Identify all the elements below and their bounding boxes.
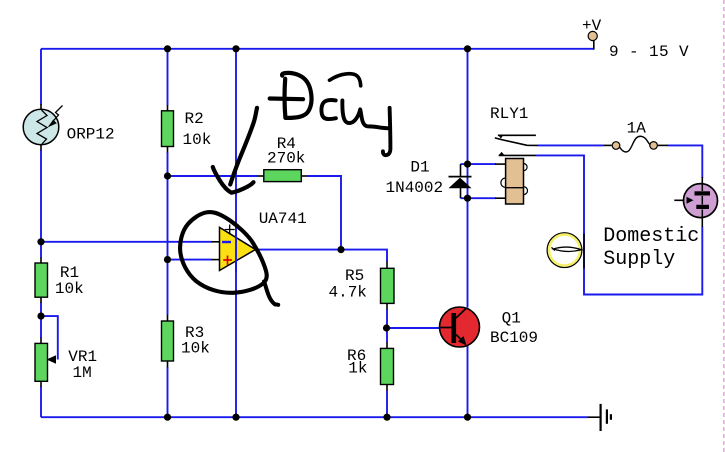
svg-text:ORP12: ORP12: [67, 125, 115, 143]
svg-text:1k: 1k: [348, 360, 367, 378]
svg-text:270k: 270k: [267, 149, 305, 167]
svg-text:Q1: Q1: [502, 310, 521, 328]
svg-text:10k: 10k: [181, 340, 210, 358]
svg-text:R5: R5: [345, 267, 364, 285]
svg-text:R2: R2: [185, 110, 204, 128]
svg-text:D1: D1: [410, 159, 429, 177]
svg-text:1A: 1A: [627, 120, 647, 138]
svg-text:RLY1: RLY1: [490, 105, 528, 123]
svg-text:UA741: UA741: [259, 210, 307, 228]
svg-text:Supply: Supply: [603, 248, 675, 271]
svg-text:4.7k: 4.7k: [329, 284, 367, 302]
svg-text:1N4002: 1N4002: [386, 179, 444, 197]
svg-text:9 - 15 V: 9 - 15 V: [609, 43, 689, 61]
svg-text:Domestic: Domestic: [603, 225, 699, 248]
svg-text:10k: 10k: [55, 280, 84, 298]
svg-text:BC109: BC109: [490, 329, 538, 347]
svg-text:10k: 10k: [183, 131, 212, 149]
svg-text:+V: +V: [582, 17, 602, 35]
svg-text:1M: 1M: [73, 364, 92, 382]
